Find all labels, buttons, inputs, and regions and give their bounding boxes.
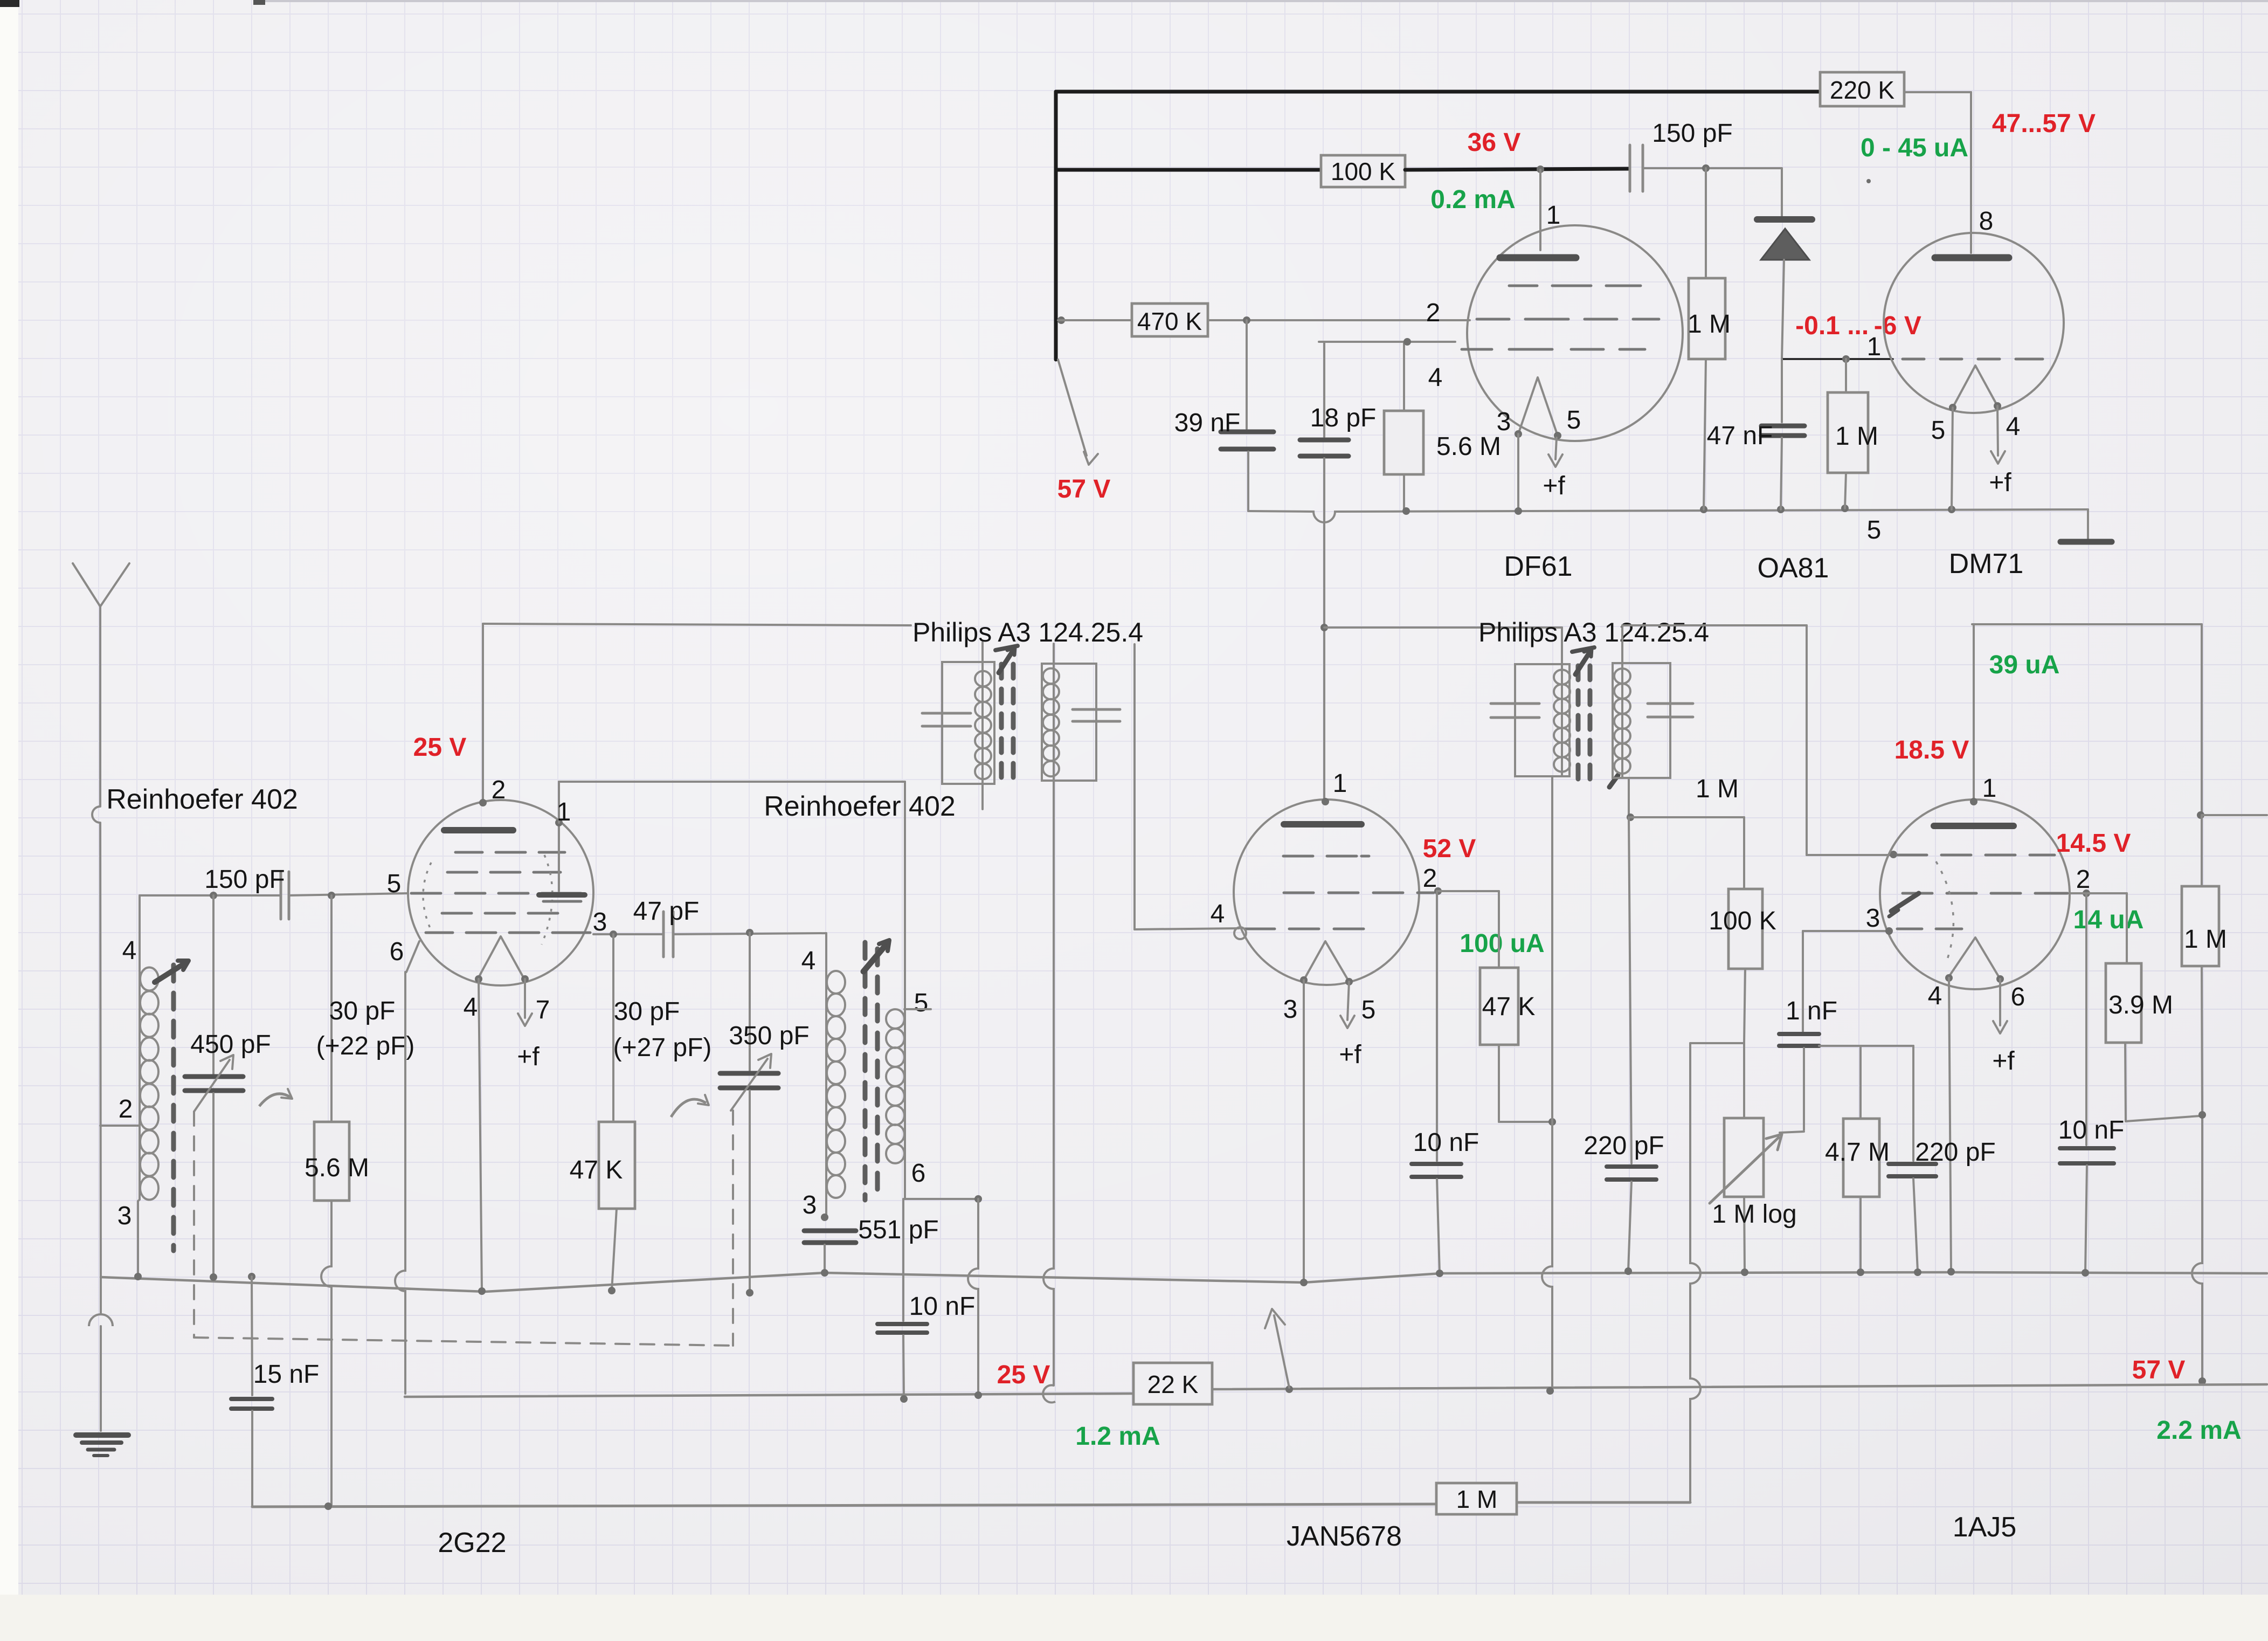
label 2G22 pin3 xyxy=(593,908,607,936)
wire 2G22 pin6 stub xyxy=(406,941,419,972)
label coil2 pin6 xyxy=(911,1159,926,1188)
svg-text:5: 5 xyxy=(1567,406,1581,435)
wire B+ top black from 57V riser to 220K xyxy=(1056,90,1820,94)
node 25V rail feed xyxy=(974,1391,982,1399)
svg-text:Reinhoefer 402: Reinhoefer 402 xyxy=(764,791,956,822)
resistor 47K (JAN) xyxy=(1480,968,1535,1045)
IFT1 secondary box xyxy=(1042,664,1096,781)
svg-text:57 V: 57 V xyxy=(1057,475,1111,504)
wire DF61 pin1 lead xyxy=(1539,170,1541,250)
tube JAN grid hook xyxy=(1234,927,1246,939)
tube DF61 envelope xyxy=(1467,225,1683,441)
coil antenna trimmer arrow xyxy=(155,961,189,982)
node junction on 470K wire xyxy=(1057,316,1065,324)
wire IFT2 secondary bottom xyxy=(1628,778,1630,817)
wire DF61 pin4 xyxy=(1319,341,1455,343)
wire 1nF bottom node east xyxy=(1819,1045,1913,1047)
svg-text:0 - 45 uA: 0 - 45 uA xyxy=(1861,134,1968,162)
IFT1 secondary cap xyxy=(1073,709,1120,721)
wire 150pF to pin5 xyxy=(289,893,408,895)
IFT2 secondary coil conductor xyxy=(1621,625,1623,778)
svg-text:2.2 mA: 2.2 mA xyxy=(2156,1416,2241,1445)
svg-text:4: 4 xyxy=(1211,900,1225,928)
IFT1 secondary coil xyxy=(1043,668,1059,777)
IFT1 primary box xyxy=(942,662,994,784)
node 47K-feed xyxy=(1548,1118,1556,1126)
svg-text:39 uA: 39 uA xyxy=(1989,651,2060,679)
capacitor 47nF xyxy=(1707,359,1804,509)
wire coil2 secondary top stub xyxy=(904,1008,931,1010)
pin dot DF61 3 xyxy=(1515,430,1522,438)
gang dashed line (horizontal) xyxy=(194,1337,733,1346)
wire JAN anode to IFT2 xyxy=(1324,626,1562,629)
label 2G22 pin5 xyxy=(387,870,402,898)
stray pencil dot xyxy=(1866,179,1871,183)
svg-text:2: 2 xyxy=(492,776,506,804)
svg-text:450 pF: 450 pF xyxy=(190,1030,271,1059)
capacitor 10nF (right) xyxy=(2058,893,2125,1272)
node 25V rail arrow xyxy=(1285,1385,1293,1393)
capacitor 150pF (top) xyxy=(1630,119,1733,191)
transformer1 secondary-return drop xyxy=(1043,644,1055,1403)
trimmer curved arrow (left) xyxy=(259,1089,292,1106)
svg-text:3: 3 xyxy=(803,1191,817,1219)
node rail DF61 pin3 xyxy=(1515,507,1522,515)
label 39 uA xyxy=(1989,651,2060,679)
wire 47K to feed node xyxy=(1499,1045,1552,1122)
tube DF61 anode bar xyxy=(1500,254,1576,261)
svg-text:2: 2 xyxy=(119,1095,133,1123)
node rail 10nF mid xyxy=(1436,1270,1443,1277)
svg-text:+f: +f xyxy=(1339,1040,1361,1069)
label coil pin2 xyxy=(119,1095,133,1123)
svg-text:220 pF: 220 pF xyxy=(1584,1132,1664,1160)
label DF61 pin1 xyxy=(1546,201,1561,230)
svg-text:1 M: 1 M xyxy=(2184,925,2227,954)
node rail 350pF xyxy=(746,1289,753,1297)
svg-text:18.5 V: 18.5 V xyxy=(1894,736,1969,764)
svg-text:1: 1 xyxy=(1546,201,1561,230)
wire to 470K xyxy=(1058,319,1132,321)
node rail 2G22 pin4 xyxy=(478,1287,486,1295)
capacitor 47pF xyxy=(633,897,700,957)
arrow regeneration xyxy=(1265,1309,1289,1388)
tube 2G22 anode bar xyxy=(444,827,513,833)
node rail 1AJ5 pin4 xyxy=(1947,1268,1955,1275)
svg-text:2: 2 xyxy=(1423,864,1437,893)
ground (antenna) xyxy=(76,1277,128,1456)
svg-text:7: 7 xyxy=(536,996,550,1024)
resistor 47K (2G22) xyxy=(570,934,635,1291)
wire coil2 bottom to feed xyxy=(905,1198,978,1200)
tube DF61 grid dashes xyxy=(1462,286,1659,349)
label 47...57 V xyxy=(1992,109,2096,138)
label JAN pin4 xyxy=(1211,900,1225,928)
svg-text:5: 5 xyxy=(1931,416,1946,445)
tube 2G22 grid dashes xyxy=(411,852,590,933)
svg-text:2G22: 2G22 xyxy=(438,1527,506,1559)
coil 2G22-anode secondary xyxy=(886,782,905,1199)
svg-text:1 M: 1 M xyxy=(1835,422,1878,451)
svg-text:1 M log: 1 M log xyxy=(1712,1200,1796,1229)
wire JAN pin2 to 47K xyxy=(1438,891,1499,968)
wire 18pF down to JAN5678 pin1 xyxy=(1323,458,1325,799)
wire 3.9M bottom to 1M node xyxy=(2126,1116,2200,1121)
pin dot 1AJ5 4 xyxy=(1945,974,1953,982)
node AVC junction xyxy=(1627,813,1634,821)
svg-text:10 nF: 10 nF xyxy=(1413,1128,1479,1157)
tube 1AJ5 filament xyxy=(1948,937,2000,979)
tube name 1AJ5 xyxy=(1953,1512,2017,1543)
wire 2G22 pin1 riser xyxy=(559,782,905,823)
capacitor 10nF (left) xyxy=(877,1199,975,1399)
pin dot 1AJ5 1 xyxy=(1970,798,1977,805)
svg-text:3: 3 xyxy=(1283,995,1298,1024)
svg-text:Reinhoefer 402: Reinhoefer 402 xyxy=(106,784,298,815)
node 3.9M join xyxy=(2198,1111,2206,1119)
wire IFT2 primary bottom drop xyxy=(1551,776,1553,1122)
wire 1M-rail riser to 1nF node xyxy=(1690,1042,1744,1044)
rail chassis (ground bus) xyxy=(101,1272,2267,1292)
capacitor 39nF xyxy=(1174,320,1274,511)
svg-text:150 pF: 150 pF xyxy=(1652,119,1732,148)
arrow to 57V label xyxy=(1058,360,1098,465)
capacitor 551pF xyxy=(804,1216,939,1273)
IFT1 core arrow xyxy=(995,646,1018,673)
label Reinhoefer 402 (anode coil) xyxy=(764,791,956,822)
wire DM71 pin4 +f arrow xyxy=(1989,406,2011,497)
node 25V rail IFT2-drop xyxy=(1546,1387,1554,1395)
label 14.5 V xyxy=(2056,829,2131,858)
svg-text:6: 6 xyxy=(911,1159,926,1188)
svg-text:14 uA: 14 uA xyxy=(2073,906,2144,934)
label 2G22 pin6 xyxy=(390,937,404,966)
svg-text:10 nF: 10 nF xyxy=(2058,1116,2125,1144)
svg-text:39 nF: 39 nF xyxy=(1174,409,1241,437)
tube JAN5678 anode bar xyxy=(1284,821,1361,828)
node 1M-2 top xyxy=(1842,355,1850,363)
node rail JAN pin3 xyxy=(1300,1279,1308,1286)
svg-text:1 nF: 1 nF xyxy=(1786,997,1837,1025)
label 52 V xyxy=(1423,835,1476,863)
svg-text:47 K: 47 K xyxy=(1482,992,1536,1021)
resistor 1M (first) xyxy=(1688,168,1731,509)
node rail ant-coil xyxy=(134,1273,142,1280)
pin dot 2G22 7 xyxy=(521,975,529,983)
label 2G22 pin7 xyxy=(536,996,550,1024)
wire 2G22 pin3 xyxy=(593,933,663,935)
label node 5 xyxy=(1867,516,1882,544)
wire 1AJ5 pin2 to 3.9M xyxy=(2070,893,2127,963)
node 57V rail right xyxy=(2198,1377,2206,1385)
IFT1 core xyxy=(1001,664,1013,781)
wire 150pF to diode corner xyxy=(1643,167,1782,169)
label 1.2 mA xyxy=(1075,1422,1160,1451)
coil antenna primary xyxy=(100,895,158,1277)
wire 2G22 anode top run xyxy=(483,624,911,625)
pin dot 2G22 4 xyxy=(475,975,482,983)
label 1AJ5 pin4 xyxy=(1928,982,1942,1010)
potentiometer 1M log xyxy=(1710,1043,1797,1271)
node 1AJ5 grid xyxy=(1890,851,1897,858)
resistor 470K xyxy=(1132,304,1208,336)
capacitor variable 350pF xyxy=(720,933,810,1292)
svg-text:25 V: 25 V xyxy=(413,733,467,762)
svg-text:+f: +f xyxy=(1992,1047,2015,1075)
node 450pF top xyxy=(210,892,217,899)
pin dot DF61 5 xyxy=(1554,432,1561,439)
label 57 V xyxy=(1057,475,1111,504)
label 2G22 pin4 xyxy=(464,993,478,1022)
IFT2 primary box xyxy=(1515,664,1569,776)
label 25 V (2G22) xyxy=(413,733,467,762)
label -0.1 ... -6 V xyxy=(1795,312,1921,340)
pin dot 1AJ5 2 xyxy=(2083,890,2090,897)
resistor 3.9M xyxy=(2106,963,2173,1121)
svg-text:470 K: 470 K xyxy=(1137,307,1202,335)
wire DM71 pin1 line (black) xyxy=(1782,358,1893,360)
coil antenna core (dashed) xyxy=(171,965,176,1251)
tube JAN filament xyxy=(1304,941,1349,982)
svg-text:47 K: 47 K xyxy=(570,1156,623,1184)
svg-text:150 pF: 150 pF xyxy=(204,865,285,894)
label 1AJ5 pin3 xyxy=(1866,904,1880,933)
label 25 V (rail) xyxy=(997,1361,1050,1389)
label 36 V xyxy=(1468,128,1521,157)
capacitor variable 450pF xyxy=(185,895,271,1277)
label Philips A3 124.25.4 (IFT2) xyxy=(1478,617,1709,647)
svg-text:100 K: 100 K xyxy=(1331,157,1396,185)
svg-text:DM71: DM71 xyxy=(1949,548,2024,580)
tube name JAN5678 xyxy=(1287,1521,1402,1552)
resistor 22K xyxy=(1133,1363,1212,1404)
svg-text:4: 4 xyxy=(122,936,137,965)
coil core (anode coil) xyxy=(865,942,877,1200)
node rail 220pF right xyxy=(1914,1268,1921,1276)
label 57 V (right) xyxy=(2132,1356,2186,1384)
svg-text:1: 1 xyxy=(1867,333,1882,361)
diode OA81 xyxy=(1757,168,1812,359)
wire B+ top right run xyxy=(1972,624,2202,814)
svg-text:8: 8 xyxy=(1979,207,1994,236)
svg-text:3: 3 xyxy=(117,1202,132,1230)
label Philips A3 124.25.4 (IFT1) xyxy=(912,617,1143,647)
pin dot JAN 1 xyxy=(1322,798,1329,805)
label coil pin3 xyxy=(117,1202,132,1230)
trimmer curved arrow (right) xyxy=(671,1095,709,1117)
tube 1AJ5 grid dashes xyxy=(1897,855,2068,929)
wire 57V riser (black vertical) xyxy=(1054,92,1058,360)
tube name DM71 xyxy=(1949,548,2024,580)
wire 220K to DM71 pin8 xyxy=(1904,92,1971,253)
label DF61 pin4 xyxy=(1428,363,1443,392)
label 1 M (AVC) xyxy=(1696,775,1739,803)
resistor 1M (second) xyxy=(1828,359,1878,508)
wire 47pF to coil xyxy=(673,933,826,934)
svg-text:18 pF: 18 pF xyxy=(1310,404,1377,432)
svg-text:1: 1 xyxy=(557,798,571,826)
tube name 2G22 xyxy=(438,1527,506,1559)
svg-text:+f: +f xyxy=(1543,472,1565,500)
wire B+ to right edge xyxy=(2202,814,2267,816)
label DF61 pin3 xyxy=(1497,408,1511,436)
tube DM71 target bar xyxy=(1935,254,2009,261)
label 30 pF (+27 pF) xyxy=(613,997,712,1062)
rail B+ 25V/57V xyxy=(405,1384,2267,1397)
resistor 100K (AVC) xyxy=(1709,889,1776,969)
svg-text:551 pF: 551 pF xyxy=(858,1216,938,1244)
IFT2 secondary coil xyxy=(1614,668,1630,774)
svg-text:Philips A3 124.25.4: Philips A3 124.25.4 xyxy=(912,617,1143,647)
resistor 1M (B+ feed) xyxy=(2182,815,2227,966)
tube 1AJ5 anode bar xyxy=(1934,823,2014,829)
node 1M-rail 5.6M xyxy=(324,1502,332,1510)
label DM71 pin4 xyxy=(2006,412,2021,441)
IFT2 core xyxy=(1578,666,1590,779)
tube DM71 envelope xyxy=(1884,233,2064,413)
capacitor 15nF xyxy=(231,1277,319,1507)
tube JAN5678 envelope xyxy=(1234,799,1419,985)
svg-text:4: 4 xyxy=(1928,982,1942,1010)
node rail 5.6M xyxy=(1402,507,1410,515)
IFT2 secondary box xyxy=(1613,663,1670,778)
svg-text:1.2 mA: 1.2 mA xyxy=(1075,1422,1160,1451)
svg-text:22 K: 22 K xyxy=(1147,1370,1199,1398)
svg-text:1AJ5: 1AJ5 xyxy=(1953,1512,2017,1543)
label DM71 pin8 xyxy=(1979,207,1994,236)
rail DF61 cathode return (hops 18pF line) xyxy=(1248,509,2088,522)
tube JAN grid dashes xyxy=(1245,856,1434,929)
wire 2G22 pin4 to rail xyxy=(479,979,482,1291)
svg-text:47 nF: 47 nF xyxy=(1707,422,1773,450)
capacitor 150pF (antenna) xyxy=(204,865,289,919)
node 47K top xyxy=(610,930,617,938)
label Reinhoefer 402 (antenna coil) xyxy=(106,784,298,815)
node rail 4.7M xyxy=(1857,1268,1864,1276)
svg-text:1 M: 1 M xyxy=(1696,775,1739,803)
svg-text:30 pF: 30 pF xyxy=(614,997,680,1026)
svg-text:47 pF: 47 pF xyxy=(633,897,700,926)
tube 1AJ5 dotted beam curve xyxy=(1936,861,1953,964)
wire 1AJ5 pin4 to rail xyxy=(1949,978,1951,1271)
resistor 220K xyxy=(1820,72,1904,106)
capacitor 18pF (coupling) xyxy=(1300,342,1376,456)
tube DM71 grid dashed xyxy=(1903,358,2043,361)
IFT2 primary coil xyxy=(1554,670,1570,771)
wire 1AJ5 pin3 xyxy=(1803,930,1889,932)
node 5.6M top (left) xyxy=(328,892,335,899)
coil 2G22-anode primary xyxy=(826,933,845,1216)
wire 1M-rail riser (hops both rails) xyxy=(1690,1043,1700,1502)
label 30 pF (+22 pF) xyxy=(316,997,415,1060)
svg-text:5.6 M: 5.6 M xyxy=(1436,432,1501,461)
IFT2 primary coil conductor xyxy=(1561,628,1563,776)
label JAN pin5 xyxy=(1361,996,1376,1024)
capacitor 220pF (right) xyxy=(1889,1046,1996,1271)
svg-text:2: 2 xyxy=(1426,299,1441,327)
IFT1 primary coil conductor xyxy=(981,643,984,809)
label JAN pin3 xyxy=(1283,995,1298,1024)
node rail coil2 xyxy=(821,1269,828,1277)
wire 100K bottom xyxy=(1744,969,1745,1043)
label coil pin4 xyxy=(122,936,137,965)
svg-text:100 K: 100 K xyxy=(1709,907,1776,935)
wire black to 100K xyxy=(1056,168,1321,172)
tube DM71 filament xyxy=(1953,366,1997,408)
svg-text:3: 3 xyxy=(593,908,607,936)
wire 2G22 pin6 drop to 25V rail xyxy=(395,972,405,1394)
resistor 5.6M (left) xyxy=(305,895,369,1507)
label 1AJ5 pin2 xyxy=(2076,865,2091,894)
wire DF61 pin3 to rail xyxy=(1517,434,1519,511)
tube 1AJ5 envelope xyxy=(1880,799,2070,989)
svg-text:6: 6 xyxy=(2011,983,2025,1011)
wire 1M down to 57V rail (hops gnd rail) xyxy=(2192,966,2202,1380)
node rail 10nF right xyxy=(2082,1269,2089,1277)
node coil pin3 xyxy=(821,1213,828,1221)
svg-text:+f: +f xyxy=(1989,468,2011,497)
node feed top xyxy=(974,1195,982,1203)
label 0 - 45 uA xyxy=(1861,134,1968,162)
antenna lead hook xyxy=(92,806,101,1277)
svg-text:DF61: DF61 xyxy=(1504,551,1572,582)
wire 1AJ5 pin1 riser xyxy=(1973,624,1975,802)
label 1AJ5 pin6 xyxy=(2011,983,2025,1011)
svg-text:6: 6 xyxy=(390,937,404,966)
svg-text:220 pF: 220 pF xyxy=(1915,1138,1995,1167)
resistor 4.7M xyxy=(1825,1046,1890,1271)
wire JAN pin3 to rail xyxy=(1303,980,1305,1282)
node rail 220pF IFT2 xyxy=(1624,1267,1632,1275)
resistor 5.6M (DF61 grid leak) xyxy=(1384,342,1501,511)
label 0.2 mA xyxy=(1430,185,1515,214)
wire grid top (antenna tank to 2G22 pin5) xyxy=(140,894,281,897)
IFT2 core arrow xyxy=(1572,647,1594,674)
svg-text:0.2 mA: 0.2 mA xyxy=(1430,185,1515,214)
label 2G22 pin2 xyxy=(492,776,506,804)
svg-text:1: 1 xyxy=(1333,769,1347,798)
IFT2 secondary cap xyxy=(1648,704,1693,717)
node rail 1M-2 xyxy=(1841,505,1849,512)
svg-text:14.5 V: 14.5 V xyxy=(2056,829,2131,858)
tube 2G22 filament xyxy=(479,936,523,977)
label coil2 pin4 xyxy=(801,947,816,975)
node rail 47nF xyxy=(1777,506,1785,513)
resistor 100K xyxy=(1321,155,1405,187)
label DM71 pin1 xyxy=(1867,333,1882,361)
node rail 450pF xyxy=(210,1273,217,1281)
coil core arrow xyxy=(863,940,889,971)
svg-text:15 nF: 15 nF xyxy=(253,1360,320,1389)
capacitor 1nF xyxy=(1779,931,1837,1133)
wire IFT2 secondary top to 1AJ5 grid xyxy=(1622,625,1891,855)
node 350pF top xyxy=(746,929,753,936)
svg-text:4: 4 xyxy=(801,947,816,975)
tube 1AJ5 grid stub xyxy=(1889,893,1919,916)
svg-text:36 V: 36 V xyxy=(1468,128,1521,157)
label coil2 pin5 xyxy=(914,989,929,1017)
label DF61 pin5 xyxy=(1567,406,1581,435)
tube name DF61 xyxy=(1504,551,1572,582)
wire 470K to DF61 pin2 xyxy=(1208,319,1470,321)
tube 2G22 dotted grid arcs xyxy=(423,855,552,944)
node B+ branch xyxy=(2197,811,2204,819)
svg-text:5: 5 xyxy=(1361,996,1376,1024)
wire AVC to 100K xyxy=(1630,817,1744,889)
pin dot 1AJ5 6 xyxy=(1996,975,2004,983)
label DF61 pin2 xyxy=(1426,299,1441,327)
tube 2G22 envelope xyxy=(408,800,593,985)
